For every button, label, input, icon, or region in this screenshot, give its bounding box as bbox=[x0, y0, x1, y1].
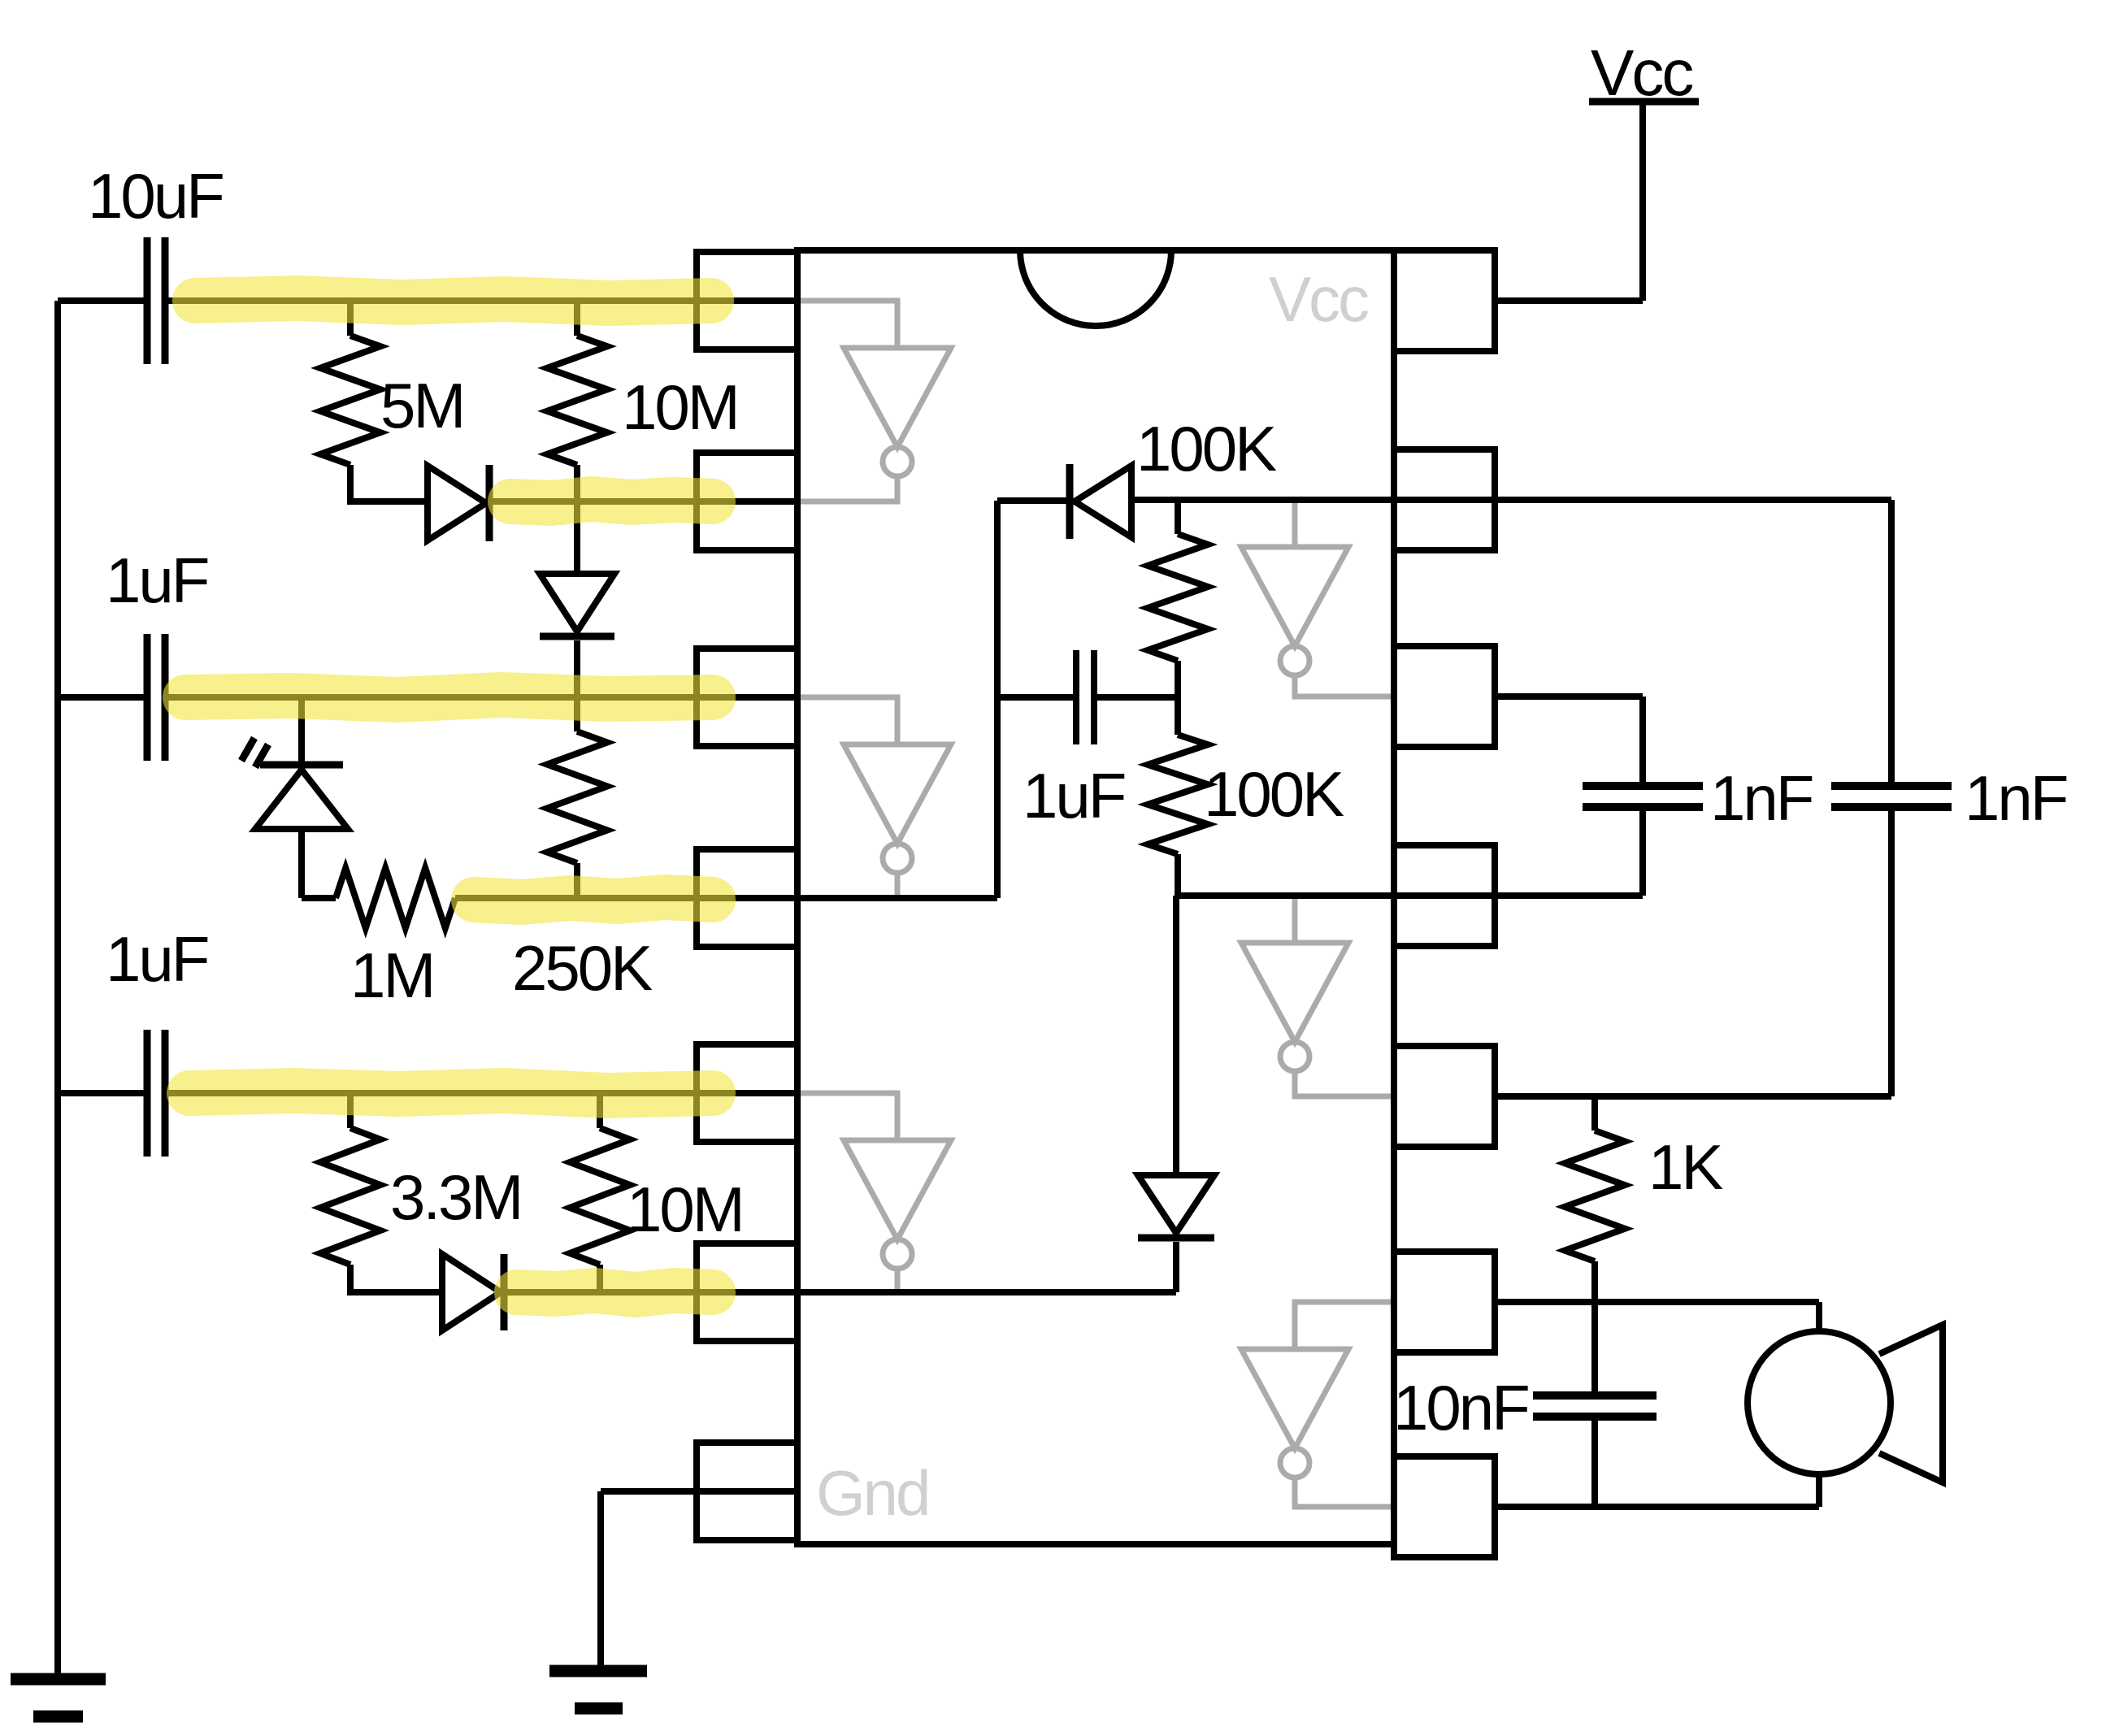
svg-text:100K: 100K bbox=[1204, 758, 1344, 830]
svg-text:100K: 100K bbox=[1136, 413, 1277, 484]
svg-text:1uF: 1uF bbox=[106, 923, 208, 995]
svg-text:1K: 1K bbox=[1648, 1131, 1723, 1203]
svg-text:1uF: 1uF bbox=[1023, 760, 1125, 831]
svg-text:Gnd: Gnd bbox=[816, 1457, 928, 1529]
svg-text:10nF: 10nF bbox=[1393, 1372, 1528, 1443]
svg-text:1M: 1M bbox=[350, 940, 433, 1011]
svg-text:10uF: 10uF bbox=[88, 160, 223, 232]
svg-text:250K: 250K bbox=[512, 932, 653, 1004]
svg-text:1nF: 1nF bbox=[1710, 762, 1813, 834]
svg-text:10M: 10M bbox=[627, 1174, 743, 1245]
svg-text:1nF: 1nF bbox=[1965, 762, 2067, 834]
svg-text:Vcc: Vcc bbox=[1591, 37, 1692, 109]
svg-text:1uF: 1uF bbox=[106, 545, 208, 616]
svg-text:5M: 5M bbox=[380, 370, 463, 441]
svg-text:10M: 10M bbox=[622, 371, 738, 443]
svg-text:Vcc: Vcc bbox=[1269, 263, 1368, 335]
svg-text:3.3M: 3.3M bbox=[390, 1161, 521, 1233]
